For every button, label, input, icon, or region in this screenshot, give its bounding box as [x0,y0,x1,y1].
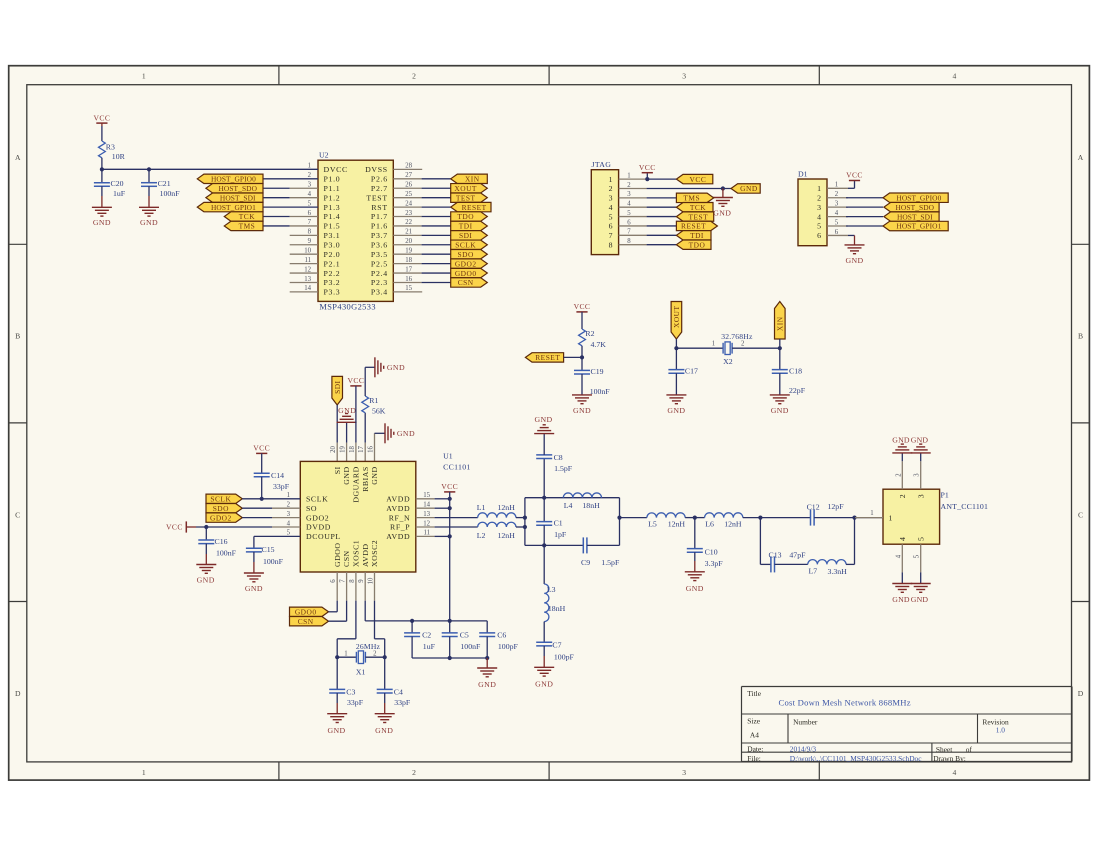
svg-text:XIN: XIN [775,316,784,331]
svg-text:4: 4 [308,191,312,198]
svg-text:5: 5 [835,219,839,226]
svg-text:L1: L1 [477,503,486,512]
svg-text:DCOUPL: DCOUPL [306,532,341,541]
svg-text:33pF: 33pF [347,698,364,707]
svg-text:3: 3 [287,511,291,518]
svg-text:File:: File: [747,754,761,763]
svg-text:TEST: TEST [456,193,476,202]
svg-text:10: 10 [304,248,311,255]
svg-text:P2.7: P2.7 [371,184,388,193]
svg-text:GND: GND [397,429,415,438]
svg-text:3: 3 [916,494,925,498]
svg-text:GND: GND [375,726,393,735]
svg-text:11: 11 [423,530,430,537]
svg-text:Size: Size [747,716,760,725]
svg-text:21: 21 [405,229,412,236]
svg-text:GND: GND [771,406,789,415]
svg-text:P3.7: P3.7 [371,231,388,240]
svg-text:C: C [1078,510,1083,519]
svg-text:26: 26 [405,182,412,189]
svg-text:1: 1 [712,340,715,347]
svg-text:2: 2 [898,494,907,498]
svg-text:GND: GND [911,595,929,604]
svg-text:1: 1 [609,175,613,184]
svg-text:D1: D1 [798,170,808,179]
svg-text:SCLK: SCLK [210,495,231,504]
svg-text:5: 5 [287,530,291,537]
svg-text:JTAG: JTAG [592,160,612,169]
svg-text:12pF: 12pF [828,502,845,511]
svg-text:9: 9 [308,238,312,245]
svg-text:100nF: 100nF [590,387,611,396]
svg-text:1.5pF: 1.5pF [554,464,573,473]
svg-text:GDOO: GDOO [333,542,342,567]
svg-text:P2.4: P2.4 [371,269,388,278]
svg-text:P2.5: P2.5 [371,259,388,268]
svg-text:TEST: TEST [689,212,709,221]
svg-text:P1.0: P1.0 [324,175,341,184]
svg-text:X1: X1 [356,668,366,677]
svg-text:GDO2: GDO2 [455,259,477,268]
svg-text:CSN: CSN [458,278,474,287]
svg-text:9: 9 [358,579,365,583]
svg-text:8: 8 [609,240,613,249]
svg-text:2: 2 [412,768,416,777]
svg-text:56K: 56K [372,406,386,415]
svg-text:TDO: TDO [689,240,706,249]
svg-text:5: 5 [914,554,921,558]
svg-text:24: 24 [405,200,412,207]
svg-text:4: 4 [817,212,821,221]
svg-text:2: 2 [308,172,312,179]
svg-text:20: 20 [405,238,412,245]
svg-text:5: 5 [609,212,613,221]
svg-text:RESET: RESET [535,353,560,362]
svg-text:18nH: 18nH [582,501,600,510]
svg-text:3: 3 [308,182,312,189]
svg-text:C20: C20 [111,179,124,188]
svg-text:2: 2 [373,651,377,658]
svg-text:D: D [1078,689,1084,698]
svg-text:P2.2: P2.2 [324,269,341,278]
svg-text:GND: GND [911,435,929,444]
svg-text:CC1101: CC1101 [443,462,471,471]
svg-text:15: 15 [423,492,430,499]
svg-text:A4: A4 [750,730,759,739]
svg-text:XIN: XIN [465,175,480,184]
svg-text:GDO0: GDO0 [295,608,317,617]
svg-text:P1.7: P1.7 [371,212,388,221]
svg-text:P1.2: P1.2 [324,193,341,202]
svg-text:32.768Hz: 32.768Hz [721,332,753,341]
svg-text:17: 17 [358,446,365,453]
svg-text:11: 11 [304,257,311,264]
svg-text:U1: U1 [443,452,453,461]
svg-text:100nF: 100nF [263,557,284,566]
svg-text:1uF: 1uF [113,189,126,198]
svg-text:8: 8 [627,238,631,245]
svg-text:X2: X2 [723,357,733,366]
svg-text:22: 22 [405,219,412,226]
svg-text:SDO: SDO [213,504,229,513]
svg-text:GND: GND [892,435,910,444]
svg-text:7: 7 [340,579,347,583]
svg-text:C10: C10 [705,548,718,557]
svg-text:P1.5: P1.5 [324,222,341,231]
svg-text:TDI: TDI [459,222,473,231]
svg-text:GDO0: GDO0 [455,269,477,278]
svg-text:L6: L6 [705,520,714,529]
svg-text:C8: C8 [554,453,563,462]
svg-text:3: 3 [682,72,686,81]
svg-text:P1: P1 [941,491,949,500]
svg-text:GND: GND [370,466,379,484]
svg-text:RBIAS: RBIAS [361,466,370,491]
svg-text:P2.6: P2.6 [371,175,388,184]
svg-text:P3.4: P3.4 [371,288,388,297]
svg-text:19: 19 [340,446,347,453]
svg-text:GND: GND [686,584,704,593]
svg-text:GND: GND [387,363,405,372]
svg-text:19: 19 [405,248,412,255]
svg-text:GND: GND [342,466,351,484]
svg-text:P2.0: P2.0 [324,250,341,259]
svg-text:C21: C21 [158,179,171,188]
svg-text:TMS: TMS [683,194,700,203]
svg-text:VCC: VCC [574,302,591,311]
svg-text:12nH: 12nH [724,520,742,529]
svg-text:14: 14 [423,502,430,509]
svg-text:AVDD: AVDD [361,543,370,567]
svg-text:26MHz: 26MHz [356,642,381,651]
svg-text:6: 6 [330,579,337,583]
svg-text:C13: C13 [769,551,782,560]
svg-text:GDO2: GDO2 [210,513,232,522]
svg-text:RF_P: RF_P [390,523,410,532]
svg-text:Sheet: Sheet [936,745,953,754]
svg-text:DGUARD: DGUARD [352,466,361,502]
svg-text:1.5pF: 1.5pF [601,558,620,567]
svg-text:4.7K: 4.7K [591,340,607,349]
svg-text:4: 4 [835,210,839,217]
svg-text:Title: Title [747,689,761,698]
svg-text:1: 1 [835,182,838,189]
svg-text:RST: RST [371,203,387,212]
svg-text:7: 7 [627,229,631,236]
svg-text:VCC: VCC [253,444,270,453]
svg-text:P1.4: P1.4 [324,212,341,221]
svg-text:GND: GND [338,406,356,415]
svg-text:7: 7 [609,231,613,240]
svg-text:100pF: 100pF [554,652,575,661]
svg-text:XOSC1: XOSC1 [352,540,361,567]
svg-text:HOST_SDO: HOST_SDO [896,203,935,212]
svg-text:14: 14 [304,285,311,292]
svg-text:HOST_GPIO1: HOST_GPIO1 [896,222,941,231]
svg-text:10: 10 [368,577,375,584]
svg-text:VCC: VCC [166,523,183,532]
svg-text:L4: L4 [564,501,573,510]
svg-text:15: 15 [405,285,412,292]
svg-text:C19: C19 [591,367,604,376]
svg-text:VCC: VCC [93,113,110,122]
svg-text:6: 6 [817,231,821,240]
svg-text:CSN: CSN [298,617,314,626]
svg-text:1: 1 [627,172,630,179]
svg-text:1: 1 [817,184,821,193]
svg-text:GND: GND [93,218,111,227]
svg-text:12nH: 12nH [498,531,516,540]
svg-text:22pF: 22pF [789,386,806,395]
svg-text:GND: GND [892,595,910,604]
svg-text:8: 8 [308,229,312,236]
svg-text:3: 3 [835,200,839,207]
svg-text:DVSS: DVSS [365,165,388,174]
svg-text:CSN: CSN [342,550,351,567]
svg-text:C7: C7 [552,640,561,649]
svg-text:3: 3 [627,191,631,198]
svg-text:33pF: 33pF [394,698,411,707]
svg-text:1: 1 [870,510,873,517]
svg-text:SDO: SDO [458,250,474,259]
svg-text:R1: R1 [369,396,378,405]
svg-text:C: C [15,510,20,519]
svg-text:5: 5 [627,210,631,217]
svg-text:C9: C9 [581,558,590,567]
svg-text:AVDD: AVDD [386,504,410,513]
svg-text:1uF: 1uF [423,642,436,651]
svg-text:25: 25 [405,191,412,198]
svg-text:R3: R3 [106,142,115,151]
svg-text:RF_N: RF_N [389,513,410,522]
svg-text:AVDD: AVDD [386,495,410,504]
svg-text:TCK: TCK [690,203,706,212]
svg-text:4: 4 [287,520,291,527]
svg-text:P3.6: P3.6 [371,240,388,249]
svg-text:MSP430G2533: MSP430G2533 [319,303,376,312]
svg-text:C12: C12 [807,503,820,512]
svg-text:GND: GND [845,256,863,265]
svg-text:P3.3: P3.3 [324,288,341,297]
svg-text:5: 5 [916,537,925,541]
svg-text:2: 2 [895,473,902,477]
svg-text:XOSC2: XOSC2 [370,540,379,567]
svg-text:18: 18 [405,257,412,264]
svg-text:GND: GND [713,208,731,217]
svg-text:TEST: TEST [366,193,387,202]
svg-text:4: 4 [895,554,902,558]
svg-text:L5: L5 [648,520,657,529]
svg-text:SDI: SDI [459,231,472,240]
svg-text:of: of [966,745,973,754]
svg-text:2: 2 [835,191,839,198]
svg-text:GND: GND [245,584,263,593]
svg-text:100nF: 100nF [216,549,237,558]
svg-text:12nH: 12nH [668,520,686,529]
svg-text:12: 12 [304,266,311,273]
svg-text:100pF: 100pF [498,642,519,651]
svg-text:5: 5 [308,200,312,207]
svg-text:SDI: SDI [333,380,342,393]
svg-text:SO: SO [306,504,317,513]
svg-text:TMS: TMS [239,222,256,231]
svg-text:3.3nH: 3.3nH [828,567,848,576]
svg-text:SCLK: SCLK [306,495,328,504]
svg-text:SCLK: SCLK [455,240,476,249]
svg-text:C16: C16 [215,537,228,546]
svg-text:P1.3: P1.3 [324,203,341,212]
svg-text:1: 1 [308,163,311,170]
svg-text:4: 4 [898,537,907,541]
svg-text:RESET: RESET [462,203,487,212]
svg-text:3: 3 [914,473,921,477]
svg-text:GND: GND [573,406,591,415]
svg-text:8: 8 [349,579,356,583]
svg-text:TCK: TCK [239,212,255,221]
svg-text:Drawn By:: Drawn By: [933,754,966,763]
svg-text:2: 2 [609,184,613,193]
svg-text:U2: U2 [319,151,329,160]
svg-text:XOUT: XOUT [672,305,681,328]
svg-text:GND: GND [667,406,685,415]
svg-text:C17: C17 [685,367,698,376]
svg-text:HOST_GPIO0: HOST_GPIO0 [896,193,941,202]
svg-text:4: 4 [953,768,957,777]
svg-text:1: 1 [142,72,146,81]
svg-text:RESET: RESET [681,222,706,231]
svg-text:6: 6 [308,210,312,217]
svg-text:DVCC: DVCC [324,165,348,174]
svg-text:VCC: VCC [347,376,364,385]
svg-text:23: 23 [405,210,412,217]
svg-text:100nF: 100nF [460,642,481,651]
svg-text:6: 6 [609,222,613,231]
svg-text:13: 13 [304,276,311,283]
svg-text:100nF: 100nF [160,189,181,198]
svg-text:P1.6: P1.6 [371,222,388,231]
svg-text:VCC: VCC [441,482,458,491]
svg-text:6: 6 [835,229,839,236]
svg-text:P3.1: P3.1 [324,231,341,240]
svg-text:GDO2: GDO2 [306,513,329,522]
svg-text:27: 27 [405,172,412,179]
svg-text:GND: GND [478,680,496,689]
svg-text:HOST_GPIO1: HOST_GPIO1 [211,203,256,212]
svg-text:A: A [1078,153,1084,162]
svg-text:B: B [15,332,20,341]
svg-text:2: 2 [412,72,416,81]
svg-text:ANT_CC1101: ANT_CC1101 [941,502,989,511]
svg-text:C3: C3 [346,688,355,697]
svg-text:Cost Down Mesh Network 868MHz: Cost Down Mesh Network 868MHz [779,697,911,707]
svg-text:28: 28 [405,163,412,170]
svg-text:P3.5: P3.5 [371,250,388,259]
svg-text:GND: GND [535,680,553,689]
svg-text:C4: C4 [394,688,403,697]
svg-text:18: 18 [349,446,356,453]
svg-text:2: 2 [741,340,745,347]
svg-text:GND: GND [197,575,215,584]
svg-text:L7: L7 [809,567,818,576]
svg-text:DVDD: DVDD [306,523,331,532]
svg-text:C15: C15 [262,545,275,554]
svg-text:HOST_GPIO0: HOST_GPIO0 [211,175,256,184]
svg-text:C1: C1 [554,519,563,528]
svg-text:18nH: 18nH [548,604,566,613]
svg-text:33pF: 33pF [273,482,290,491]
svg-text:XOUT: XOUT [454,184,477,193]
svg-text:C5: C5 [460,631,469,640]
svg-text:D:\work\..\CC1101_MSP430G2533.: D:\work\..\CC1101_MSP430G2533.SchDoc [790,754,922,763]
svg-text:HOST_SDO: HOST_SDO [218,184,257,193]
svg-text:C2: C2 [422,631,431,640]
svg-text:VCC: VCC [690,175,707,184]
svg-text:2: 2 [817,193,821,202]
svg-text:4: 4 [953,72,957,81]
svg-text:16: 16 [368,446,375,453]
svg-text:HOST_SDI: HOST_SDI [220,193,256,202]
svg-text:VCC: VCC [846,171,863,180]
svg-text:SI: SI [333,466,342,474]
svg-text:R2: R2 [585,329,594,338]
svg-text:1: 1 [344,651,347,658]
svg-text:P1.1: P1.1 [324,184,341,193]
svg-text:P2.1: P2.1 [324,259,341,268]
svg-text:GND: GND [534,415,552,424]
svg-text:L3: L3 [547,585,556,594]
svg-text:3: 3 [682,768,686,777]
svg-text:C14: C14 [271,471,284,480]
svg-text:4: 4 [627,201,631,208]
svg-text:2: 2 [287,502,291,509]
svg-text:GND: GND [140,218,158,227]
svg-text:1: 1 [142,768,146,777]
svg-text:5: 5 [817,222,821,231]
svg-text:1: 1 [287,492,290,499]
svg-text:P2.3: P2.3 [371,278,388,287]
svg-text:C18: C18 [789,367,802,376]
svg-text:3.3pF: 3.3pF [705,559,724,568]
svg-text:TDO: TDO [457,212,474,221]
svg-text:16: 16 [405,276,412,283]
svg-text:2014/9/3: 2014/9/3 [790,745,817,754]
svg-text:B: B [1078,332,1083,341]
svg-text:Number: Number [793,717,818,726]
svg-text:1.0: 1.0 [996,725,1006,734]
svg-text:17: 17 [405,266,412,273]
svg-text:13: 13 [423,511,430,518]
svg-text:3: 3 [817,203,821,212]
svg-text:7: 7 [308,219,312,226]
svg-text:1: 1 [889,513,893,522]
svg-text:2: 2 [627,182,631,189]
svg-text:A: A [15,153,21,162]
svg-text:GND: GND [327,726,345,735]
svg-text:P3.2: P3.2 [324,278,341,287]
svg-text:3: 3 [609,194,613,203]
svg-text:L2: L2 [477,531,486,540]
svg-text:20: 20 [330,446,337,453]
svg-text:GND: GND [740,184,758,193]
svg-text:AVDD: AVDD [386,532,410,541]
svg-text:VCC: VCC [639,163,656,172]
svg-text:6: 6 [627,219,631,226]
svg-text:TDI: TDI [690,231,704,240]
svg-text:10R: 10R [112,152,126,161]
svg-text:12nH: 12nH [498,503,516,512]
svg-text:12: 12 [423,520,430,527]
svg-text:C6: C6 [497,631,506,640]
